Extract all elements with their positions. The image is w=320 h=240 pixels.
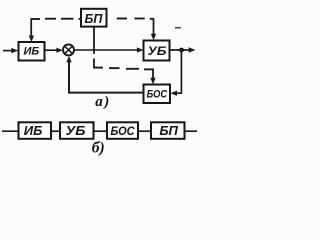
block ИБ (diagram b): [19, 122, 52, 139]
wire: ИБ to УБ (b): [51, 130, 60, 132]
block БОС (diagram b): [107, 122, 138, 139]
block БОС: [144, 85, 171, 104]
dashed power wire: БП to УБ: [117, 18, 157, 40]
scan speck top right: [175, 27, 181, 29]
svg-text:БП: БП: [84, 12, 103, 26]
junction node: [179, 48, 184, 53]
svg-text:ИБ: ИБ: [24, 123, 43, 138]
svg-text:а): а): [95, 94, 111, 110]
wire: summing junction to УБ: [74, 47, 143, 52]
svg-text:БОС: БОС: [111, 126, 136, 138]
svg-text:УБ: УБ: [66, 123, 86, 138]
dashed power wire: БП to ИБ: [29, 18, 82, 42]
wire: input into ИБ (b): [2, 130, 19, 132]
block ИБ: [19, 42, 45, 61]
wire: junction down and left into БОС: [170, 50, 181, 96]
svg-text:б): б): [92, 139, 105, 156]
wire: УБ to БОС (b): [94, 130, 108, 132]
svg-text:ИБ: ИБ: [23, 46, 39, 58]
block УБ: [144, 41, 170, 61]
block УБ (diagram b): [60, 122, 94, 139]
block БП (diagram b): [151, 122, 185, 139]
wire: input arrow into ИБ: [3, 48, 18, 53]
svg-text:УБ: УБ: [148, 44, 168, 58]
dashed power wire: БП to БОС: [93, 27, 156, 85]
svg-text:БП: БП: [159, 123, 178, 138]
block БП: [81, 9, 107, 27]
wire: БОС to БП (b): [138, 130, 151, 132]
wire: БОС left to summing junction (feedback): [66, 56, 143, 93]
wire: ИБ to summing junction: [45, 48, 63, 53]
summing junction: [63, 44, 74, 55]
wire: БП output (b): [185, 130, 198, 132]
wire: УБ output arrow: [170, 47, 196, 52]
svg-text:БОС: БОС: [147, 88, 168, 100]
